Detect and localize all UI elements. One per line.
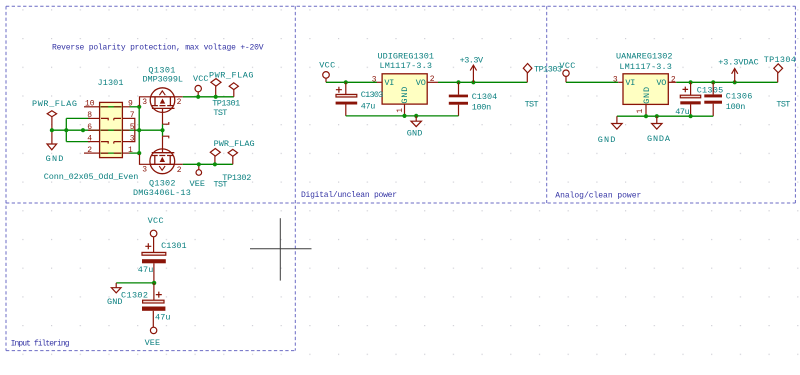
wire bottom rail bbox=[183, 163, 233, 165]
svg-text:47u: 47u bbox=[155, 313, 171, 323]
svg-text:3: 3 bbox=[613, 76, 618, 85]
regulator U1301 body bbox=[382, 74, 427, 104]
svg-text:C1302: C1302 bbox=[121, 290, 148, 300]
junction VEE stem bbox=[197, 162, 201, 166]
wire row4 stub bbox=[66, 141, 90, 143]
svg-text:Analog/clean power: Analog/clean power bbox=[555, 192, 641, 201]
svg-text:TP1301: TP1301 bbox=[212, 99, 240, 109]
junction PWR_FLAG2 stem bbox=[214, 95, 218, 99]
power symbol VEE input bbox=[150, 327, 156, 333]
cursor crosshair bbox=[250, 218, 312, 280]
svg-text:VI: VI bbox=[625, 78, 635, 88]
svg-text:C1306: C1306 bbox=[726, 92, 753, 102]
svg-text:C1301: C1301 bbox=[161, 241, 187, 251]
svg-text:VCC: VCC bbox=[148, 216, 164, 226]
svg-text:GND: GND bbox=[407, 128, 423, 138]
svg-text:GNDA: GNDA bbox=[647, 134, 671, 144]
test point TP1304 symbol bbox=[774, 64, 783, 83]
svg-text:1: 1 bbox=[396, 108, 405, 113]
U1302 pin 1 GND lead bbox=[645, 104, 647, 116]
wire row8 stub bbox=[66, 117, 90, 119]
power symbol VCC input bbox=[150, 230, 157, 252]
power symbol VCC top bbox=[195, 85, 201, 96]
transistor Q1302 bbox=[140, 136, 183, 174]
svg-text:2: 2 bbox=[177, 166, 182, 175]
wire ground rail right bbox=[617, 115, 713, 117]
junction C1306 top bbox=[711, 80, 715, 84]
svg-text:100n: 100n bbox=[726, 102, 746, 112]
junction C1305 bottom bbox=[689, 114, 693, 118]
svg-text:J1301: J1301 bbox=[98, 78, 124, 88]
wire through connector row2-1 bbox=[101, 152, 122, 154]
junction node row5 bbox=[137, 128, 141, 132]
ground symbol GNDA bbox=[652, 116, 662, 129]
capacitor C1306 bbox=[704, 82, 722, 116]
ground symbol GND left bbox=[47, 144, 57, 150]
svg-text:C1303: C1303 bbox=[361, 90, 384, 100]
J1301 pin 10 bbox=[84, 106, 100, 108]
svg-text:VCC: VCC bbox=[319, 61, 335, 71]
svg-text:VI: VI bbox=[384, 78, 394, 88]
U1302 pin 3 VI bbox=[618, 81, 623, 83]
svg-text:TST: TST bbox=[525, 99, 539, 109]
svg-text:47u: 47u bbox=[138, 265, 154, 275]
wire VCC to VI bbox=[326, 81, 377, 83]
junction gnd stem bbox=[414, 114, 418, 118]
J1301 pin 7 bbox=[122, 117, 129, 119]
power flag PFL1 symbol bbox=[47, 111, 56, 144]
junction node row1 bbox=[137, 151, 141, 155]
svg-text:3: 3 bbox=[142, 98, 147, 107]
svg-text:VCC: VCC bbox=[559, 61, 575, 71]
junction VCC stem bbox=[196, 95, 200, 99]
svg-text:TP1303: TP1303 bbox=[534, 65, 562, 75]
svg-text:6: 6 bbox=[87, 123, 92, 132]
junction +3.3VDAC stem bbox=[733, 80, 737, 84]
wire through connector row10-9 bbox=[101, 106, 122, 108]
svg-text:47u: 47u bbox=[361, 102, 376, 112]
svg-text:UANAREG1302: UANAREG1302 bbox=[616, 51, 673, 61]
svg-text:2: 2 bbox=[87, 146, 92, 155]
J1301 pin numbers right bbox=[128, 100, 135, 155]
svg-text:8: 8 bbox=[87, 111, 92, 120]
power symbol +3.3V bbox=[470, 65, 476, 82]
J1301 pin 4 bbox=[88, 141, 100, 143]
svg-text:GND: GND bbox=[400, 87, 410, 104]
ground symbol GND right bbox=[612, 116, 622, 129]
transistor Q1301 bbox=[140, 88, 183, 124]
power symbol VCC mid bbox=[323, 72, 330, 83]
J1301 pin 6 bbox=[88, 129, 100, 131]
wire ground rail mid bbox=[346, 115, 459, 117]
svg-text:LM1117-3.3: LM1117-3.3 bbox=[619, 62, 672, 72]
wire left bus vertical bbox=[65, 118, 67, 141]
J1301 pin 9 bbox=[122, 106, 129, 108]
svg-text:TP1304: TP1304 bbox=[764, 55, 796, 65]
power flag PFL2 symbol bbox=[211, 79, 221, 97]
svg-text:PWR_FLAG: PWR_FLAG bbox=[209, 70, 254, 80]
wire top rail bbox=[183, 96, 234, 98]
connector J1301 body bbox=[100, 102, 123, 157]
junction C1305 top bbox=[689, 80, 693, 84]
U1301 pin 1 GND lead bbox=[404, 104, 406, 116]
svg-text:PWR_FLAG: PWR_FLAG bbox=[214, 139, 255, 149]
J1301 inner pin hooks bbox=[101, 107, 121, 153]
svg-text:Conn_02x05_Odd_Even: Conn_02x05_Odd_Even bbox=[44, 172, 139, 182]
wire VO rail bbox=[438, 81, 527, 83]
junction GNDA stem bbox=[655, 114, 659, 118]
svg-text:3: 3 bbox=[142, 165, 147, 174]
svg-text:UDIGREG1301: UDIGREG1301 bbox=[378, 51, 435, 61]
J1301 pin 2 bbox=[84, 152, 100, 154]
J1301 pin 3 bbox=[122, 141, 129, 143]
junction left bus bbox=[64, 128, 68, 132]
capacitor C1305 bbox=[680, 82, 700, 116]
U1301 pin 2 VO bbox=[427, 81, 438, 83]
svg-text:Digital/unclean power: Digital/unclean power bbox=[301, 191, 397, 200]
svg-text:VEE: VEE bbox=[145, 338, 161, 348]
svg-text:VO: VO bbox=[416, 78, 426, 88]
junction pin1 right bbox=[644, 114, 648, 118]
svg-text:2: 2 bbox=[430, 75, 435, 84]
svg-text:47u: 47u bbox=[675, 107, 690, 117]
svg-text:Reverse polarity protection, m: Reverse polarity protection, max voltage… bbox=[52, 44, 264, 53]
svg-text:2: 2 bbox=[671, 76, 676, 85]
junction gate node bbox=[160, 128, 164, 132]
junction pin1 gnd bbox=[402, 114, 406, 118]
svg-text:TST: TST bbox=[214, 179, 228, 189]
wire pin1 to node bbox=[130, 152, 140, 154]
svg-text:3: 3 bbox=[372, 76, 377, 85]
wire gate link bbox=[162, 124, 164, 136]
svg-text:+3.3V: +3.3V bbox=[460, 55, 484, 65]
wire junction to GND input bbox=[116, 282, 154, 284]
junction PWR_FLAG3 stem bbox=[213, 162, 217, 166]
svg-text:LM1117-3.3: LM1117-3.3 bbox=[380, 61, 433, 71]
svg-text:2: 2 bbox=[177, 98, 182, 107]
test point TP1302 symbol bbox=[228, 149, 237, 164]
tie line pin7 bbox=[130, 118, 135, 130]
wire through connector row6-5 bbox=[101, 129, 122, 131]
J1301 pin numbers left bbox=[85, 100, 95, 155]
svg-text:Input filtering: Input filtering bbox=[11, 340, 70, 349]
wire VO rail right bbox=[676, 81, 778, 83]
svg-text:GND: GND bbox=[46, 154, 64, 164]
power symbol +3.3VDAC bbox=[732, 69, 738, 83]
capacitor C1301 bbox=[142, 243, 166, 283]
junction row6 mid bbox=[81, 128, 85, 132]
capacitor C1303 bbox=[336, 82, 358, 116]
svg-text:5: 5 bbox=[130, 123, 135, 132]
svg-text:VCC: VCC bbox=[193, 74, 209, 84]
svg-text:VO: VO bbox=[656, 78, 666, 88]
svg-text:10: 10 bbox=[85, 100, 95, 109]
test point TP1301 symbol bbox=[229, 83, 238, 97]
J1301 pin 8 bbox=[88, 117, 100, 119]
svg-text:TST: TST bbox=[776, 100, 790, 110]
svg-text:DMP3099L: DMP3099L bbox=[143, 75, 184, 85]
svg-text:100n: 100n bbox=[472, 103, 492, 113]
wire pin9 to node bbox=[130, 106, 140, 108]
svg-text:TST: TST bbox=[213, 108, 227, 118]
junction +3.3V stem bbox=[471, 80, 475, 84]
svg-text:+3.3VDAC: +3.3VDAC bbox=[718, 58, 759, 68]
junction C1304 top bbox=[456, 80, 460, 84]
svg-text:GND: GND bbox=[598, 135, 616, 145]
svg-text:C1305: C1305 bbox=[697, 86, 724, 96]
capacitor C1302 bbox=[142, 283, 165, 327]
J1301 pin 1 bbox=[122, 152, 129, 154]
U1301 pin 3 VI bbox=[377, 81, 382, 83]
wire VCC to VI right bbox=[566, 81, 618, 83]
junction C1303 top bbox=[344, 80, 348, 84]
wire right bus vertical bbox=[138, 107, 140, 153]
svg-text:4: 4 bbox=[87, 134, 92, 143]
power symbol VEE bbox=[196, 164, 202, 175]
svg-text:C1304: C1304 bbox=[472, 92, 498, 102]
svg-text:PWR_FLAG: PWR_FLAG bbox=[32, 99, 77, 109]
junction node row9 bbox=[137, 105, 141, 109]
svg-text:VEE: VEE bbox=[190, 179, 206, 189]
U1302 pin 2 VO bbox=[668, 81, 676, 83]
capacitor C1304 bbox=[449, 82, 468, 116]
J1301 pin 5 bbox=[122, 129, 129, 131]
regulator U1302 body bbox=[623, 74, 668, 105]
test point TP1303 symbol bbox=[523, 64, 532, 83]
junction at PWR_FLAG stem bbox=[50, 128, 54, 132]
ground symbol GND input bbox=[111, 283, 121, 293]
svg-text:1: 1 bbox=[636, 109, 645, 114]
power symbol VCC right bbox=[563, 70, 569, 82]
power flag PFL3 symbol bbox=[210, 149, 220, 165]
svg-text:GND: GND bbox=[642, 87, 652, 104]
tie line pin3 bbox=[130, 130, 135, 141]
wire row6 net bbox=[52, 129, 163, 131]
junction caps mid bbox=[152, 281, 156, 285]
svg-text:DMG3406L-13: DMG3406L-13 bbox=[133, 188, 191, 198]
svg-text:Q1302: Q1302 bbox=[149, 178, 176, 188]
ground symbol GND mid bbox=[411, 116, 421, 127]
